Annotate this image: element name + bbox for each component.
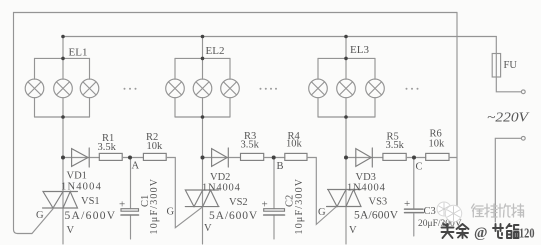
svg-text:10k: 10k: [286, 139, 303, 150]
capacitor C2 plates: [264, 209, 285, 212]
resistor R1: [99, 153, 122, 160]
lamp EL1-b: [54, 79, 73, 98]
capacitor C1 plates: [121, 209, 139, 212]
svg-text:VS1: VS1: [81, 196, 100, 207]
node VD1 anode: [61, 156, 65, 160]
lamp EL2-c: [221, 79, 240, 98]
lamp EL1-c: [80, 79, 99, 98]
resistor R5: [383, 153, 406, 160]
wire top/left border loop (gate feedback): [14, 13, 458, 234]
wire main AC bus: [63, 36, 496, 38]
wire VS1 gate diagonal: [32, 208, 54, 234]
terminal upper: [521, 90, 525, 94]
svg-text:VS2: VS2: [229, 197, 248, 208]
svg-text:V: V: [67, 225, 75, 236]
svg-text:VS3: VS3: [369, 197, 388, 208]
diode VD3: [356, 148, 373, 167]
svg-text:3.5k: 3.5k: [386, 140, 405, 151]
wire EL3 feed: [345, 37, 347, 59]
svg-text:1N4004: 1N4004: [202, 183, 241, 194]
triac VS2: [185, 190, 219, 207]
wire R4 to VS3 gate: [307, 158, 337, 225]
svg-text:5A/600V: 5A/600V: [209, 210, 258, 222]
triac VS1: [43, 192, 78, 209]
wire fuse drop: [495, 37, 497, 54]
svg-text:G: G: [36, 210, 44, 221]
node A junction: [128, 156, 132, 160]
wire right feedback vertical: [456, 13, 458, 213]
svg-text:EL3: EL3: [350, 44, 369, 56]
node EL1 top: [61, 57, 65, 61]
wire EL3 bottom bus: [318, 116, 375, 118]
wire R6 to feedback line: [449, 157, 457, 159]
svg-text:3.5k: 3.5k: [98, 142, 117, 153]
capacitor C3 wire: [413, 158, 415, 237]
node EL3 top: [344, 57, 348, 61]
capacitor C3 plates: [405, 209, 424, 213]
svg-text:G: G: [167, 207, 175, 218]
wire VS1 main vertical: [62, 117, 64, 244]
node EL1 bus tap: [61, 35, 65, 39]
wire lamp bottoms EL3: [318, 98, 375, 117]
wire EL3 top bus: [318, 57, 375, 59]
svg-text:FU: FU: [504, 60, 518, 71]
wire VS3 main vertical: [345, 117, 347, 244]
svg-text:+: +: [262, 199, 268, 211]
svg-text:5A/600V: 5A/600V: [65, 210, 117, 222]
wire EL1 top bus: [35, 57, 90, 59]
resistor R3: [241, 153, 264, 160]
wire lower terminal: [495, 138, 521, 222]
wire R1 to A to R2: [122, 157, 143, 159]
wire lamp stubs EL2: [175, 58, 230, 79]
svg-text:A: A: [132, 161, 140, 172]
wire lamp stubs EL1: [35, 58, 90, 79]
dots between lamp groups: [124, 88, 419, 90]
svg-text:C3: C3: [424, 206, 436, 217]
watermark text 德标机械 (light): [472, 204, 524, 217]
lamp EL3-b: [337, 79, 356, 98]
triac VS3: [327, 190, 362, 207]
wire lamp bottoms EL1: [35, 98, 90, 117]
svg-text:+: +: [119, 199, 125, 211]
svg-text:B: B: [277, 161, 284, 172]
lamp EL1-a: [25, 79, 44, 98]
resistor R6: [426, 153, 449, 160]
svg-text:10k: 10k: [147, 141, 164, 152]
wire fuse to terminal: [496, 77, 521, 92]
svg-text:10k: 10k: [429, 139, 446, 150]
node EL2 bottom: [201, 115, 205, 119]
wire stage1 gate row: [63, 157, 99, 159]
node EL1 bottom: [61, 115, 65, 119]
node C junction: [412, 156, 416, 160]
wire lamp stubs EL3: [318, 58, 375, 79]
node B junction: [272, 156, 276, 160]
lamp EL3-a: [309, 79, 328, 98]
wire stage2 gate row: [203, 157, 241, 159]
lamp EL3-c: [366, 79, 385, 98]
wire EL2 feed: [202, 37, 204, 59]
watermark text 头条 @节能120 (dark): [442, 224, 519, 238]
node EL2 bus tap: [201, 35, 205, 39]
wire R2 to VS2 gate: [166, 158, 203, 228]
node EL3 bottom: [344, 115, 348, 119]
lamp EL2-b: [193, 79, 212, 98]
svg-text:1N4004: 1N4004: [347, 183, 386, 194]
svg-text:5A/600V: 5A/600V: [354, 210, 399, 222]
svg-text:VD2: VD2: [210, 172, 230, 183]
diode VD2: [212, 148, 229, 167]
svg-text:VD1: VD1: [67, 171, 87, 182]
node VD3 anode: [344, 156, 348, 160]
svg-text:10μF/300V: 10μF/300V: [149, 178, 160, 235]
wire EL2 top bus: [175, 57, 230, 59]
svg-text:C: C: [416, 162, 423, 173]
wire R3 to B to R4: [264, 157, 285, 159]
svg-text:G: G: [318, 207, 326, 218]
resistor R4: [285, 153, 307, 160]
svg-text:EL2: EL2: [206, 45, 225, 57]
svg-text:1N4004: 1N4004: [61, 182, 102, 193]
diode VD1: [72, 148, 90, 167]
svg-text:@: @: [474, 225, 488, 241]
capacitor C1 wire: [130, 158, 132, 240]
resistor R2: [143, 153, 166, 160]
svg-text:120: 120: [519, 227, 535, 242]
watermark snowflake icon: [437, 202, 462, 222]
svg-text:EL1: EL1: [69, 47, 88, 59]
svg-text:V: V: [204, 223, 212, 234]
wire R5 to C to R6: [406, 157, 426, 159]
node EL2 top: [201, 57, 205, 61]
svg-text:+: +: [404, 198, 410, 210]
svg-text:3.5k: 3.5k: [241, 140, 260, 151]
node VD2 anode: [201, 156, 205, 160]
svg-text:10μF/300V: 10μF/300V: [294, 178, 305, 235]
capacitor C2 wire: [273, 158, 275, 240]
wire lamp bottoms EL2: [175, 98, 230, 117]
node EL3 bus tap: [344, 35, 348, 39]
svg-text:~220V: ~220V: [487, 110, 530, 125]
wire VS2 main vertical: [202, 117, 204, 244]
wire EL1 feed: [62, 37, 64, 59]
wire EL1 bottom bus: [35, 116, 90, 118]
wire stage3 gate row: [346, 157, 383, 159]
wire EL2 bottom bus: [175, 116, 230, 118]
svg-text:V: V: [349, 225, 357, 236]
svg-text:VD3: VD3: [356, 172, 376, 183]
terminal lower: [521, 136, 525, 140]
lamp EL2-a: [166, 79, 185, 98]
fuse FU: [492, 54, 500, 78]
